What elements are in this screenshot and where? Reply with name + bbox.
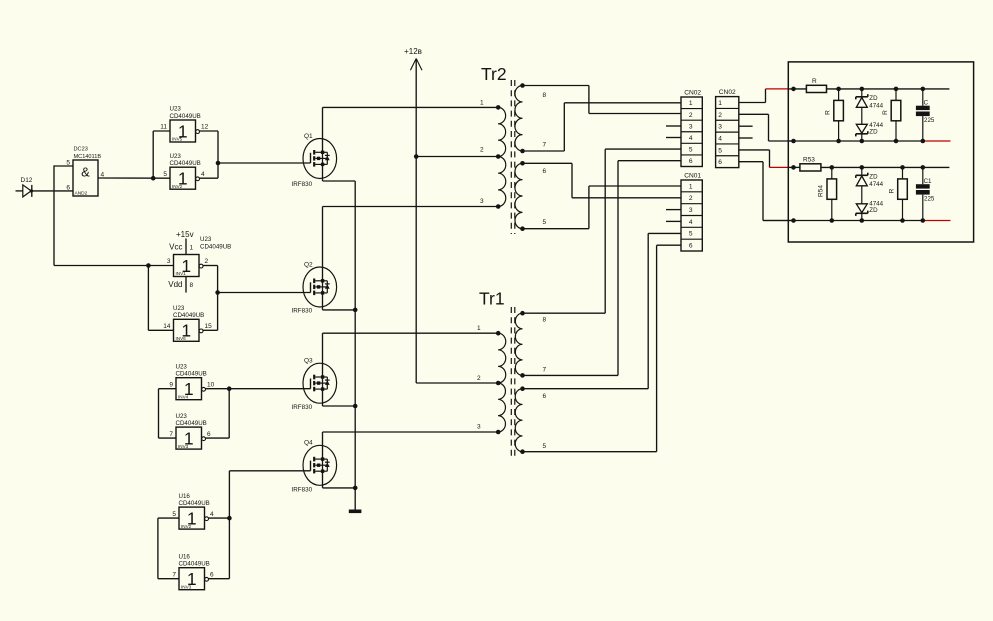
svg-text:15: 15 [205,323,213,330]
wire input tie vertical [158,389,160,438]
wire NAND output pin 4 [98,177,170,179]
wire Tr1 pin8 to CN02 pin5 [523,312,606,314]
junction [215,290,220,295]
wire diode to NAND pin 6 [32,190,73,192]
zener diodes ZD 4744 pair [856,89,884,141]
Tr2 primary winding pins 1-2-3 [480,99,506,209]
junction [900,165,905,170]
svg-text:CD4049UB: CD4049UB [176,371,207,378]
svg-text:Q4: Q4 [304,439,313,446]
wire red segment top rail [766,88,789,90]
svg-text:8: 8 [543,92,547,99]
node board input top [791,87,796,92]
svg-text:R: R [882,110,889,115]
wire to Q1 gate [218,162,311,164]
wire to INV5 pin 11 [153,130,170,132]
svg-text:CN02: CN02 [684,89,701,96]
Tr2 core [510,80,512,234]
wire Tr2 pin6 to CN01 pin2 [523,162,573,164]
svg-text:+15v: +15v [176,230,194,239]
wire to pin 7 [159,437,177,439]
wire top rail [827,88,950,90]
svg-text:CD4049UB: CD4049UB [170,113,201,120]
wire CN02R pin2 to board [739,113,769,115]
wire input tie vertical [157,518,159,579]
wire Q1 source [322,164,324,181]
svg-text:2: 2 [477,375,481,382]
svg-text:U23: U23 [170,106,182,113]
wire rail to resistor R53 [788,166,800,168]
resistor R54 (vertical) [818,167,837,220]
inverter U23 CD4049UB pins 7-6 [169,413,211,449]
svg-text:C1: C1 [924,178,932,185]
wire to pin 14 [148,329,173,331]
junction [921,139,926,144]
svg-text:Q3: Q3 [304,357,313,364]
wire lower top rail [821,166,950,168]
junction [900,218,905,223]
Tr1 secondary winding pins 8-7 [515,311,546,378]
svg-text:4744: 4744 [869,181,883,188]
connector CN01 [681,172,702,251]
wire lower bottom rail [763,220,923,222]
svg-text:CD4049UB: CD4049UB [176,420,207,427]
svg-text:INV1: INV1 [176,271,187,276]
junction [921,165,926,170]
svg-text:R54: R54 [818,185,825,197]
svg-text:5: 5 [543,443,547,450]
wire CN02R pin1 to board [739,102,766,104]
svg-text:2: 2 [689,112,693,119]
svg-text:IRF830: IRF830 [292,487,313,494]
wire CN02R pin6 to board [739,161,763,163]
svg-text:225: 225 [924,117,935,124]
wire INV1 input pin 3 [54,265,174,267]
transistor Q4 IRF830 [292,439,337,493]
svg-text:INV4: INV4 [178,394,189,399]
wire Q1 drain up and right to Tr2 pin1 [322,107,324,152]
resistor R53 [800,157,821,172]
Tr1 core [510,307,512,459]
stub CN02L pin3 [666,125,681,127]
svg-text:4: 4 [689,219,693,226]
wire Q3 source [322,389,324,406]
inverter U23 CD4049UB pins 14-15 [163,305,212,341]
svg-text:D12: D12 [21,177,33,184]
wire Q2 source [322,293,324,310]
svg-text:INV5: INV5 [172,137,183,142]
power +12v arrow [404,47,422,383]
svg-text:INV3: INV3 [178,444,189,449]
resistor R (vertical, right) [882,89,901,141]
wire to Q2 gate [218,292,311,294]
junction [353,486,358,491]
svg-text:225: 225 [924,195,935,202]
svg-text:6: 6 [689,158,693,165]
wire output bus up [228,471,230,579]
wire Tr2 pin8 to CN02 pin2 [523,85,589,87]
junction [353,308,358,313]
wire red segment lower bottom rail [923,220,951,222]
svg-text:3: 3 [689,123,693,130]
transistor Q1 IRF830 [292,133,337,188]
wire to pin 9 [159,388,177,390]
svg-text:IRF830: IRF830 [292,307,313,314]
svg-text:ZD: ZD [869,129,878,136]
wire output bus down [217,131,219,178]
svg-text:IRF830: IRF830 [292,181,313,188]
wire Q2 drain up and right to Tr2 pin3 [322,207,324,281]
svg-text:5: 5 [718,147,722,154]
svg-text:Tr2: Tr2 [481,64,507,84]
inverter U23 CD4049UB pins 5-4 [163,153,205,189]
wire up to pin 11 [152,131,154,178]
junction [791,218,796,223]
wire vertical from pin5 node down to INV1 input [53,165,55,265]
junction [860,165,865,170]
svg-text:7: 7 [543,367,547,374]
svg-text:4: 4 [210,511,214,518]
svg-text:U23: U23 [176,413,188,420]
connector CN02 (right) [716,89,739,168]
svg-text:CD4049UB: CD4049UB [173,312,204,319]
svg-text:1: 1 [480,99,484,106]
stub CN01 pin3 [666,209,681,211]
svg-text:1: 1 [689,100,693,107]
svg-text:U23: U23 [170,153,182,160]
junction [830,218,835,223]
svg-text:Q2: Q2 [304,261,313,268]
wire Q3 drain up and right to Tr1 pin1 [322,333,324,377]
inverter U23 CD4049UB pins 3-2 with Vcc Vdd [167,230,231,293]
svg-text:R: R [889,188,896,193]
svg-text:+12в: +12в [404,47,422,56]
junction [921,87,926,92]
svg-text:CN01: CN01 [684,172,701,179]
wire to Q4 gate [229,470,310,472]
stub CN02R pin3 [739,125,753,127]
svg-text:3: 3 [477,423,481,430]
Tr1 secondary winding pins 6-5 [515,386,546,454]
svg-text:10: 10 [207,381,215,388]
svg-text:Vcc: Vcc [169,243,182,252]
svg-text:R: R [812,78,817,85]
svg-text:ZD: ZD [869,95,878,102]
transistor Q3 IRF830 [292,357,337,411]
wire output bus up [228,389,230,438]
wire output bus down [217,266,219,331]
wire bottom rail [788,140,923,142]
svg-text:4: 4 [689,135,693,142]
svg-text:CD4049UB: CD4049UB [179,500,210,507]
resistor R (vertical, left) [825,89,844,141]
svg-text:7: 7 [169,431,173,438]
wire pin15 output [203,329,218,331]
svg-text:CN02: CN02 [719,89,736,96]
wire Tr1 pin6 to CN01 pin5 [523,388,649,390]
svg-text:Q1: Q1 [304,133,313,140]
output board box [788,62,973,242]
svg-text:Vdd: Vdd [168,280,182,289]
inverter U23 CD4049UB pins 11-12 [160,106,208,142]
svg-text:INV3: INV3 [181,584,192,589]
NAND gate DC23 MC14011B [66,147,104,197]
junction [227,516,232,521]
wire CN02R pin5 to board [739,149,770,151]
wire down to pin 14 [147,266,149,331]
svg-text:CD4049UB: CD4049UB [200,243,231,250]
junction [353,404,358,409]
svg-text:7: 7 [543,142,547,149]
svg-text:U23: U23 [176,363,188,370]
svg-text:9: 9 [169,381,173,388]
svg-text:8: 8 [190,282,194,289]
svg-text:Tr1: Tr1 [479,289,505,309]
junction [860,218,865,223]
svg-text:6: 6 [718,159,722,166]
wire pin6 output [209,578,230,580]
capacitor C 225 [916,89,935,141]
svg-text:1: 1 [477,325,481,332]
svg-text:14: 14 [163,323,171,330]
svg-text:INV6: INV6 [176,336,187,341]
wire pin12 output [200,130,219,132]
svg-text:3: 3 [480,198,484,205]
junction [830,165,835,170]
wire Q4 drain up and right to Tr1 pin3 [322,432,324,459]
wire Tr1 pin7 to CN02 pin6 [523,374,619,376]
connector CN02 (left) [681,89,702,166]
junction [921,218,926,223]
svg-text:3: 3 [167,258,171,265]
svg-text:C: C [924,99,929,106]
junction [791,139,796,144]
svg-text:R: R [825,110,832,115]
svg-text:2: 2 [689,195,693,202]
junction +12v to Tr2 pin2 [414,154,419,159]
wire to Tr1 pin 2 [416,382,498,384]
svg-text:12: 12 [201,124,209,131]
svg-text:4744: 4744 [869,103,883,110]
wire Tr2 pin5 to CN01 pin1 [523,228,589,230]
svg-text:INV2: INV2 [172,184,183,189]
svg-text:3: 3 [718,124,722,131]
node board input bottom [791,165,796,170]
svg-text:CD4049UB: CD4049UB [179,561,210,568]
wire pin4 output [200,177,219,179]
diode D12 [16,177,34,197]
svg-text:6: 6 [66,184,70,191]
svg-text:5: 5 [689,147,693,154]
wire to pin 5 [158,517,179,519]
svg-text:6: 6 [689,242,693,249]
junction [894,139,899,144]
svg-text:5: 5 [689,231,693,238]
wire Tr2 pin7 to CN02 pin1 [523,150,565,152]
svg-text:11: 11 [160,124,167,131]
svg-text:ZD: ZD [869,207,878,214]
wire Q4 source [322,471,324,488]
wire to Tr2 pin 2 [416,156,498,158]
svg-text:5: 5 [543,219,547,226]
svg-text:1: 1 [718,100,722,107]
svg-text:2: 2 [480,146,484,153]
ground [349,510,362,514]
svg-text:DC23: DC23 [74,147,88,153]
resistor R [806,78,826,93]
junction [860,139,865,144]
svg-text:4: 4 [201,171,205,178]
svg-text:7: 7 [172,571,176,578]
svg-text:U23: U23 [200,236,212,243]
svg-text:INV2: INV2 [181,524,192,529]
inverter U23 CD4049UB pins 9-10 [169,363,214,399]
svg-text:6: 6 [543,168,547,175]
svg-text:U16: U16 [179,493,191,500]
wire pin2 output [203,265,218,267]
wire pin10 output to Q3 gate [206,388,311,390]
svg-text:6: 6 [543,393,547,400]
wire source bus vertical to ground [354,181,356,510]
svg-text:2: 2 [205,258,209,265]
svg-text:6: 6 [207,431,211,438]
wire red segment lower top rail [770,166,789,168]
svg-text:ZD: ZD [869,174,878,181]
stub CN01 pin4 [666,220,681,222]
svg-text:MC14011B: MC14011B [74,154,102,160]
junction [146,263,151,268]
svg-text:&: & [81,165,90,180]
svg-text:U16: U16 [179,553,191,560]
wire pin4 output [209,517,230,519]
svg-text:5: 5 [172,511,176,518]
Tr2 secondary winding pins 8-7 [515,83,547,153]
svg-text:IRF830: IRF830 [292,404,313,411]
wire to pin 7 [158,578,179,580]
junction [836,87,841,92]
stub CN02L pin4 [666,137,681,139]
wire rail to resistor R [788,88,806,90]
svg-text:1: 1 [689,183,693,190]
svg-text:8: 8 [543,317,547,324]
Tr1 primary winding pins 1-2-3 [477,325,506,434]
svg-text:CD4049UB: CD4049UB [170,160,201,167]
svg-text:AND2: AND2 [75,191,88,197]
resistor R (vertical) [889,167,908,220]
inverter U16 CD4049UB pins 5-4 [172,493,214,529]
svg-text:4: 4 [718,135,722,142]
svg-text:6: 6 [210,571,214,578]
svg-text:R53: R53 [803,157,815,164]
junction [860,87,865,92]
svg-text:2: 2 [718,112,722,119]
wire red segment bottom rail [923,140,951,142]
stub CN02R pin4 [739,137,753,139]
junction [894,87,899,92]
svg-text:U23: U23 [173,305,185,312]
wire NAND pin5 input [54,165,73,167]
junction [151,176,156,181]
zener diodes ZD 4744 pair [856,167,884,220]
svg-text:3: 3 [689,207,693,214]
inverter U16 CD4049UB pins 7-6 [172,553,214,589]
svg-text:5: 5 [163,171,167,178]
capacitor C1 225 [916,167,935,220]
wire Tr1 pin5 to CN01 pin6 [523,451,657,453]
svg-text:1: 1 [190,245,194,252]
transistor Q2 IRF830 [292,261,337,314]
junction [836,139,841,144]
junction [216,161,221,166]
wire pin6 output [206,437,230,439]
Tr2 secondary winding pins 6-5 [515,161,547,231]
junction [227,386,232,391]
